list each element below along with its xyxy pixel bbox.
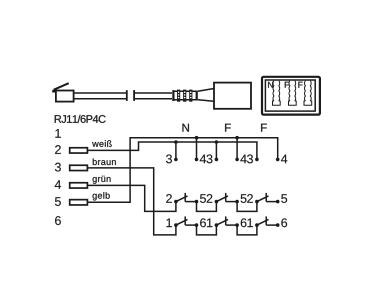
label 5 of F2 (281, 194, 287, 203)
wire drop contact 3 of F1 (215, 142, 217, 159)
wire weiss: pin2 to 3-contacts lower bus (87, 142, 257, 159)
label 3 of F2 (247, 154, 253, 163)
RJ11 plug P1 latch nub (52, 90, 55, 93)
junction lower bus / contact3 F1 (215, 140, 219, 144)
contact 3 N (174, 158, 178, 162)
pin 3 (55, 163, 61, 172)
wire link 5(F1) to 2(F2) (237, 202, 257, 212)
label F on TAE socket right (298, 82, 302, 88)
cable segment 2 (134, 93, 172, 99)
adapter body U1 (214, 83, 251, 109)
label braun (93, 158, 116, 165)
label F column F2 (261, 124, 267, 132)
junction upper bus / contact4 F1 (235, 136, 239, 140)
TAE slot F middle (289, 81, 297, 106)
label N on TAE socket (268, 82, 273, 88)
switch S1 contacts 2-5 of N (176, 193, 197, 202)
label 2 of F2 (247, 194, 253, 203)
label 4 of F2 (281, 155, 287, 164)
label 5 of F1 (241, 194, 247, 203)
contact 4 N (195, 158, 199, 162)
label F column F1 (225, 124, 231, 132)
pin 2 (55, 145, 61, 154)
TAE socket X1 outer shell (262, 77, 320, 115)
contact 3 F1 (215, 158, 219, 162)
contact 4 F1 (235, 158, 239, 162)
wire gelb: pin5 to 4-contacts upper bus (87, 138, 277, 203)
label 1 of F1 (207, 219, 212, 228)
label 4 of F1 (240, 155, 246, 164)
strain relief boot of plug P2 (172, 90, 198, 102)
wire link 6(F1) to 1(F2) (237, 225, 257, 235)
pin 1 (55, 129, 60, 138)
label gelb (93, 192, 110, 200)
contact 3 F2 (255, 158, 259, 162)
TAE socket X1 inner face (265, 80, 315, 111)
label gruen (93, 176, 111, 184)
wire link 5(N) to 2(F1) (197, 202, 217, 212)
terminal pin 3 (70, 165, 88, 170)
terminal pin 2 (70, 148, 88, 153)
label 5 of N (200, 194, 206, 203)
label 1 of F2 (248, 219, 253, 228)
cable break bar right (133, 90, 135, 101)
terminal pin 5 (70, 200, 88, 205)
pin 6 (55, 216, 61, 225)
label 4 of N (200, 155, 206, 164)
wire link 6(N) to 1(F1) (197, 225, 217, 235)
TAE slot F right (304, 81, 312, 106)
pin 5 (55, 197, 61, 206)
label 1 of N (167, 219, 172, 228)
label N column (182, 124, 188, 132)
label 2 of N (166, 194, 172, 203)
RJ11 plug P1 body (56, 91, 74, 102)
switch S6 contacts 1-6 of F2 (257, 216, 278, 225)
pin 4 (55, 180, 61, 189)
label 3 of F1 (207, 154, 213, 163)
junction lower bus / contact3 N (174, 140, 178, 144)
junction upper bus / contact4 N (195, 136, 199, 140)
label weiss (92, 140, 112, 147)
wire drop contact 3 of N (175, 142, 177, 159)
label RJ11/6P4C (55, 115, 106, 123)
label 6 of N (200, 218, 206, 227)
label F on TAE socket middle (285, 82, 289, 88)
RJ11 plug P1 latch (54, 83, 69, 90)
wire braun: pin3 to contact 1 of N (87, 168, 175, 235)
switch S4 contacts 1-6 of N (176, 216, 197, 225)
cable break bar left (126, 90, 128, 101)
wire gruen: pin4 to contact 2 of N (87, 185, 175, 211)
plug P2 flare into adapter (198, 89, 214, 102)
label 6 of F1 (241, 218, 247, 227)
wire drop contact 4 of N (196, 138, 198, 160)
switch S5 contacts 1-6 of F1 (216, 216, 237, 225)
cable segment 1 (75, 93, 127, 99)
wire drop contact 4 of F1 (236, 138, 238, 160)
terminal pin 4 (70, 183, 88, 188)
label 6 of F2 (281, 218, 287, 227)
switch S2 contacts 2-5 of F1 (216, 193, 237, 202)
TAE slot N (273, 81, 281, 106)
contact 4 F2 (276, 158, 280, 162)
switch S3 contacts 2-5 of F2 (257, 193, 278, 202)
label 2 of F1 (207, 194, 213, 203)
label 3 of N (166, 154, 172, 163)
